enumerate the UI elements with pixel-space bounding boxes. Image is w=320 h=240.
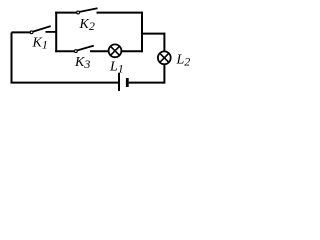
wire: L2 top feed — [163, 33, 165, 52]
switch K1 pivot — [30, 31, 33, 34]
lamp L2 — [158, 51, 171, 64]
wire: K3 branch left segment — [55, 50, 74, 52]
lamp L1 — [109, 44, 122, 57]
svg-text:L2: L2 — [176, 52, 191, 68]
wire: L1 to right trunk — [122, 50, 143, 52]
switch K3 blade — [77, 46, 94, 51]
battery B1 short plate (-) — [126, 78, 129, 87]
switch K2 pivot — [77, 11, 80, 14]
svg-text:L1: L1 — [109, 60, 124, 76]
wire: left trunk (node A) — [55, 12, 57, 53]
wire: top branch left segment — [55, 12, 76, 14]
switch K1 blade — [33, 26, 51, 32]
wire: left outer wire — [11, 32, 13, 82]
wire: bottom wire right (battery to L2) — [129, 82, 165, 84]
svg-text:K3: K3 — [74, 55, 90, 71]
svg-text:K2: K2 — [79, 17, 95, 33]
battery B1 long plate (+) — [118, 73, 120, 91]
wire: L2 bottom feed — [163, 64, 165, 83]
wire: L2 stub horizontal — [141, 33, 164, 35]
wire: K3 contact to lamp L1 — [90, 50, 109, 52]
wire: bottom wire left (to battery) — [11, 82, 119, 84]
wire: K1 contact stub — [46, 31, 58, 33]
switch K2 blade — [80, 8, 98, 12]
wire: K1 branch left segment — [12, 31, 31, 33]
switch K3 pivot — [75, 50, 78, 53]
svg-text:K1: K1 — [32, 36, 48, 52]
wire: top branch right segment — [97, 12, 144, 14]
wire: right trunk (node B) — [141, 12, 143, 53]
